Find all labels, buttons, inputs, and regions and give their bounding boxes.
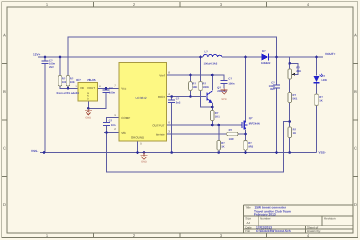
capacitor C2 Vcc bypass xyxy=(103,87,116,94)
node bus/output cap xyxy=(275,151,278,154)
node bus/IC gnd xyxy=(136,151,139,154)
svg-text:100uH 3A5: 100uH 3A5 xyxy=(204,62,218,65)
svg-text:Vcc: Vcc xyxy=(121,86,127,90)
wire Vfb stub xyxy=(104,132,119,134)
node RtCt/Ct xyxy=(170,95,173,98)
svg-text:1K: 1K xyxy=(293,132,296,135)
wire pot to mid resistor xyxy=(289,79,291,93)
wire R1 column top xyxy=(59,57,61,76)
svg-text:A4: A4 xyxy=(247,221,251,225)
svg-text:C?: C? xyxy=(176,98,180,101)
svg-text:78L05: 78L05 xyxy=(87,78,96,82)
wire Vref line xyxy=(167,75,225,89)
node bus/sense R xyxy=(244,151,247,154)
node source/Isense xyxy=(244,133,247,136)
svg-text:C:\EDA\15W boost.Sch: C:\EDA\15W boost.Sch xyxy=(256,229,291,233)
wire Ct column xyxy=(171,97,173,153)
capacitor C6 output xyxy=(269,82,280,91)
node RtCt/Rt xyxy=(189,95,192,98)
resistor R5 emitter xyxy=(211,111,221,121)
svg-text:Vfb: Vfb xyxy=(121,131,126,135)
zone ticks right xyxy=(353,64,358,177)
wire rail after diode xyxy=(269,56,323,58)
wire rail after inductor xyxy=(222,56,262,58)
node rail/input cap xyxy=(44,56,47,59)
mosfet Q2 xyxy=(242,121,248,130)
resistor R3 Rt xyxy=(189,82,198,91)
node output line/emitter R xyxy=(211,124,214,127)
svg-text:1K: 1K xyxy=(221,145,224,148)
svg-text:10K: 10K xyxy=(70,81,75,84)
node rail/R3 column xyxy=(199,56,202,59)
svg-text:2n2: 2n2 xyxy=(176,101,181,104)
potentiometer R9 xyxy=(288,66,301,79)
svg-text:D?: D? xyxy=(322,75,326,78)
svg-text:D: D xyxy=(87,97,89,100)
wire 12V to emitter resistor column xyxy=(201,57,213,107)
node Vfb/feedback xyxy=(105,131,108,134)
pin numbers U1 xyxy=(114,70,170,145)
svg-text:Q?: Q? xyxy=(249,117,253,120)
wire Isense line xyxy=(167,133,246,135)
svg-text:10R: 10R xyxy=(229,138,234,141)
svg-text:IRFZ44N: IRFZ44N xyxy=(249,123,260,126)
svg-text:Size: Size xyxy=(245,216,251,220)
svg-text:Rt/Ct: Rt/Ct xyxy=(158,95,165,99)
wire regulator out to Vcc pin xyxy=(98,87,119,89)
wire input cap column xyxy=(44,57,46,153)
svg-text:OUTPUT: OUTPUT xyxy=(152,123,165,127)
node divider tap xyxy=(288,120,291,123)
node rail/output cap xyxy=(275,56,278,59)
capacitor C4 Ct xyxy=(168,98,181,105)
svg-text:L?: L? xyxy=(205,50,209,53)
ground (red) under IC xyxy=(141,153,148,160)
wire divider column top xyxy=(289,57,291,69)
wire mid resistor to tap xyxy=(289,103,291,128)
svg-text:C?: C? xyxy=(109,120,113,123)
svg-text:10n: 10n xyxy=(111,124,116,127)
svg-text:1N5822: 1N5822 xyxy=(261,62,271,65)
svg-text:GND: GND xyxy=(85,117,91,120)
resistor R6 gate pulldown xyxy=(217,140,225,150)
svg-text:SPD: SPD xyxy=(221,98,226,101)
svg-text:A: A xyxy=(354,33,357,38)
node rail/drain xyxy=(244,56,247,59)
resistor R11 divider bottom xyxy=(288,127,297,138)
wire IC ground stub xyxy=(137,141,139,153)
svg-text:VD: VD xyxy=(80,86,84,90)
svg-text:D?: D? xyxy=(262,50,266,53)
wire R2 bottom xyxy=(67,86,69,88)
svg-text:VSS-: VSS- xyxy=(319,150,326,154)
wire Rt column xyxy=(189,75,191,97)
svg-text:February 2013: February 2013 xyxy=(254,212,276,216)
svg-text:C?: C? xyxy=(109,87,113,90)
ground (red) under regulator xyxy=(85,108,92,114)
zone ticks bottom xyxy=(94,233,267,237)
wire emitter node xyxy=(211,103,213,111)
node divider top xyxy=(288,62,291,65)
svg-text:10K: 10K xyxy=(192,86,197,89)
capacitor C3 comp xyxy=(103,120,116,128)
svg-text:GND: GND xyxy=(141,161,147,164)
node bus/power gnd xyxy=(143,151,146,154)
svg-text:100n: 100n xyxy=(109,91,115,94)
node regulator gnd xyxy=(87,107,90,110)
svg-text:File: File xyxy=(245,229,250,233)
node bus/pulldown xyxy=(218,151,221,154)
resistor R12 LED xyxy=(315,94,324,106)
svg-text:5K1: 5K1 xyxy=(293,97,298,100)
wire regulator gnd stub xyxy=(87,101,89,108)
wire feedback return xyxy=(107,122,290,173)
wire mosfet drain column xyxy=(245,57,247,121)
svg-text:20K: 20K xyxy=(296,70,301,73)
svg-text:Drawn By:: Drawn By: xyxy=(307,229,321,233)
wire R1 bottom to regulator xyxy=(60,86,78,88)
node bus/divider xyxy=(288,151,291,154)
svg-text:A: A xyxy=(3,33,6,38)
svg-text:C?: C? xyxy=(228,77,232,80)
svg-text:UC3842: UC3842 xyxy=(135,96,146,100)
capacitor C5 Vref bypass xyxy=(221,77,235,85)
LED D2 xyxy=(314,74,327,83)
svg-text:100K: 100K xyxy=(203,86,209,89)
node Vcc cap tee xyxy=(105,87,108,90)
svg-text:GROUND: GROUND xyxy=(131,136,145,140)
wire mosfet source column xyxy=(245,130,247,153)
resistor R10 divider mid xyxy=(288,93,298,103)
node rail/R1 xyxy=(59,56,62,59)
wire emitter resistor to output line xyxy=(211,121,213,126)
svg-text:Vref: Vref xyxy=(159,73,165,77)
svg-text:D: D xyxy=(3,202,6,207)
svg-text:LED: LED xyxy=(322,79,327,82)
resistor R7 sense xyxy=(244,140,254,150)
svg-text:C: C xyxy=(354,146,357,151)
wire COMP cap xyxy=(107,118,119,133)
wire collector to Vref xyxy=(211,75,213,91)
svg-text:Revision: Revision xyxy=(324,216,336,220)
resistor R4 xyxy=(199,82,209,91)
node bus/input cap xyxy=(43,151,46,154)
wire pot wiper return xyxy=(290,63,298,74)
svg-text:IC?: IC? xyxy=(76,78,81,82)
svg-text:35V: 35V xyxy=(270,88,275,91)
svg-text:Number: Number xyxy=(260,216,271,220)
capacitor C1 input xyxy=(42,60,56,69)
wire OUTPUT gate line xyxy=(167,124,243,126)
node bus/Ct xyxy=(170,151,173,154)
svg-text:VOUT+: VOUT+ xyxy=(325,52,336,56)
wire ground bus xyxy=(40,152,317,154)
node output line/pulldown xyxy=(218,124,221,127)
title block xyxy=(244,205,354,233)
svg-text:Title: Title xyxy=(245,206,251,210)
svg-text:B: B xyxy=(354,89,357,94)
wire LED column xyxy=(316,57,318,153)
svg-text:D: D xyxy=(354,202,357,207)
svg-text:R?: R? xyxy=(229,129,233,132)
resistor R1 xyxy=(58,76,67,87)
wire output cap column xyxy=(276,57,278,153)
svg-text:100n: 100n xyxy=(228,83,234,86)
wire 12V rail xyxy=(38,56,203,58)
inductor L1 xyxy=(203,54,222,57)
zone ticks left xyxy=(2,64,7,177)
svg-text:COMP: COMP xyxy=(121,116,130,120)
node emitter xyxy=(211,106,214,109)
zone ticks top xyxy=(94,2,267,7)
svg-text:12V+: 12V+ xyxy=(33,53,41,57)
svg-text:from eV01 ode04: from eV01 ode04 xyxy=(57,91,80,95)
svg-text:C: C xyxy=(3,146,6,151)
wire Vcc bypass cap xyxy=(88,88,106,108)
svg-text:B: B xyxy=(3,89,6,94)
diode D1 xyxy=(261,50,271,65)
resistor R2 xyxy=(66,76,75,87)
svg-text:1K: 1K xyxy=(319,100,322,103)
svg-text:25V: 25V xyxy=(49,66,54,69)
node R2/regulator input xyxy=(67,87,70,90)
svg-text:0R5: 0R5 xyxy=(248,145,253,148)
svg-text:VOUT: VOUT xyxy=(87,86,95,90)
resistor R8 Isense series (horizontal) xyxy=(227,129,238,141)
svg-text:1K1: 1K1 xyxy=(215,115,220,118)
ground (red) at Vref bypass xyxy=(221,89,228,95)
wire Rt/Ct line xyxy=(167,96,206,98)
wire R2 top to VOUT sense xyxy=(68,37,277,76)
svg-text:Q?: Q? xyxy=(217,86,221,89)
regulator IC2 78L05 xyxy=(75,78,101,101)
op IC U1 UC3842 xyxy=(119,63,167,142)
wire gate pulldown column xyxy=(218,125,220,153)
node rail/LED xyxy=(315,56,318,59)
wire bottom resistor to bus xyxy=(289,138,291,153)
node Vref/collector xyxy=(211,74,214,77)
svg-text:VSS-: VSS- xyxy=(31,149,38,153)
node Vref/Rt xyxy=(189,74,192,77)
transistor Q1 xyxy=(207,91,212,103)
svg-text:Isense: Isense xyxy=(156,132,165,136)
